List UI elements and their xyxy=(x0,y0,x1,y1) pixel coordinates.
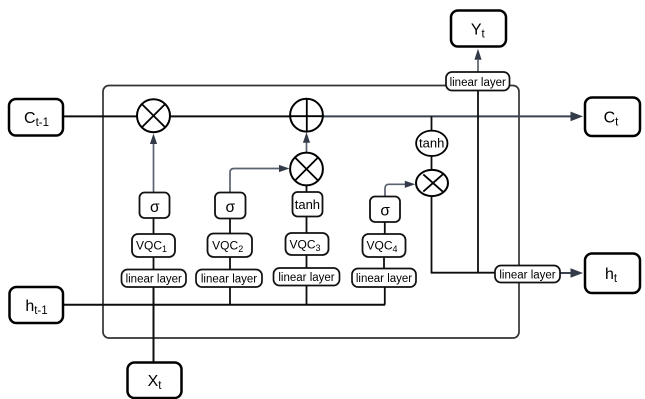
cell boundary box xyxy=(103,86,519,339)
wire: VQC4 to linear layer 4 xyxy=(383,257,385,269)
wire: sigma4 to VQC4 xyxy=(384,222,386,234)
box sigma4 xyxy=(370,197,400,223)
tanh node: cell state activation xyxy=(416,131,447,156)
box C_t-1 input xyxy=(9,99,63,136)
multiply node: output gate xyxy=(416,170,448,196)
box VQC2 xyxy=(208,234,253,258)
wire: X_t vertical up to linear layer 1 xyxy=(153,287,155,363)
arrow: sigma4 elbow to output multiply node xyxy=(385,181,415,197)
svg-text:linear layer: linear layer xyxy=(201,274,257,286)
box linear layer 4 xyxy=(352,269,416,288)
wire: c-line from C_t-1 to plus node xyxy=(63,115,306,117)
wire: stub linear layer 2 to h-line xyxy=(229,287,231,305)
wire: vertical from top linear layer down to output junction xyxy=(477,90,479,273)
plus node: cell state addition xyxy=(290,99,323,132)
box VQC1 xyxy=(132,234,175,257)
wire: VQC2 to linear layer 2 xyxy=(229,257,231,270)
svg-text:linear layer: linear layer xyxy=(499,270,555,282)
svg-text:linear layer: linear layer xyxy=(450,77,506,89)
arrow: top linear layer up to Y_t xyxy=(474,49,481,72)
svg-text:tanh: tanh xyxy=(295,197,320,212)
arrow: right linear layer to h_t xyxy=(560,268,583,278)
wire: VQC3 to linear layer 3 xyxy=(306,255,308,268)
box VQC4 xyxy=(363,234,406,257)
multiply node: forget gate xyxy=(137,99,170,132)
box VQC3 xyxy=(286,233,329,255)
box h_t-1 input xyxy=(10,287,64,323)
box h_t output xyxy=(585,254,640,294)
box sigma2 xyxy=(215,193,246,219)
wire: tanh box to VQC3 xyxy=(306,217,308,234)
arrow: input multiply node up to plus node xyxy=(303,132,310,152)
box top linear layer feeding Y_t xyxy=(446,72,510,91)
wire: h-line from h_t-1 across columns xyxy=(63,304,385,306)
svg-text:σ: σ xyxy=(150,199,160,216)
svg-text:σ: σ xyxy=(380,203,390,220)
wire: VQC1 to linear layer 1 xyxy=(153,257,155,270)
wire: stub linear layer 3 to h-line xyxy=(306,286,308,305)
box sigma1 xyxy=(140,193,170,219)
wire: c-line branch down through tanh and output multiply to output linear layer xyxy=(432,116,497,272)
box X_t input xyxy=(128,363,182,399)
wire: sigma2 to VQC2 xyxy=(229,219,231,234)
box tanh3 xyxy=(293,192,323,217)
svg-text:tanh: tanh xyxy=(419,135,444,150)
wire: sigma1 to VQC1 xyxy=(153,218,155,234)
arrow: sigma1 up to forget multiply node xyxy=(150,134,157,193)
box right linear layer feeding h_t xyxy=(495,266,560,283)
svg-text:linear layer: linear layer xyxy=(356,273,412,285)
wire: arrow plus node to C_t xyxy=(306,112,583,122)
box Y_t output xyxy=(451,11,506,47)
arrow: sigma2 elbow to input multiply node xyxy=(230,165,290,193)
box C_t output xyxy=(585,98,640,137)
wire: stub linear layer 4 to h-line xyxy=(384,287,386,305)
box linear layer 1 xyxy=(122,270,187,288)
wire: input multiply to tanh box xyxy=(306,186,308,193)
svg-text:linear layer: linear layer xyxy=(278,272,334,284)
multiply node: input gate xyxy=(290,153,323,186)
svg-text:σ: σ xyxy=(226,199,236,216)
box linear layer 3 xyxy=(274,268,340,286)
box linear layer 2 xyxy=(196,270,262,288)
svg-text:linear layer: linear layer xyxy=(126,274,182,286)
